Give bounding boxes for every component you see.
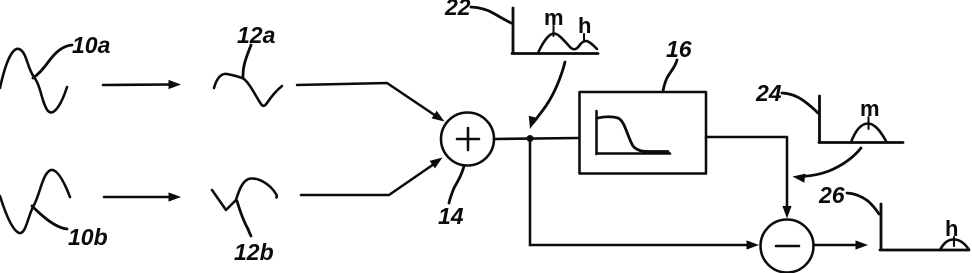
leader 26: [847, 193, 879, 214]
svg-text:26: 26: [818, 182, 845, 208]
filter block 16: [580, 92, 707, 174]
wire 12a to summer: [297, 83, 436, 116]
spectrum sketch 22 axes: [512, 8, 598, 54]
spectrum 22 humps: [538, 34, 597, 54]
wire bottom to subtractor: [530, 244, 748, 247]
spectrum 24 hump: [851, 124, 886, 143]
curved arrow 22 to junction: [533, 62, 565, 123]
wire junction down: [529, 141, 532, 245]
junction node: [527, 135, 534, 142]
wire 12b to summer: [301, 164, 434, 195]
leader 12a: [243, 45, 251, 77]
spectrum sketch 26 axes: [880, 204, 969, 250]
tick h 26: [953, 237, 955, 246]
waveform 12a: [214, 74, 282, 106]
spectrum sketch 24 axes: [819, 96, 903, 143]
subtractor circle: [761, 220, 814, 273]
curved arrow 24 to wire: [802, 148, 861, 177]
leader 14: [449, 166, 464, 203]
filter response axes: [597, 111, 671, 154]
leader 10a: [33, 45, 72, 78]
svg-text:14: 14: [438, 203, 464, 229]
spectrum 26 hump: [940, 240, 969, 251]
svg-text:22: 22: [444, 0, 471, 20]
leader 12b: [237, 201, 251, 236]
arrow 10b to 12b: [104, 196, 170, 199]
waveform 10b: [0, 170, 70, 233]
leader 22: [471, 7, 511, 23]
svg-text:h: h: [945, 216, 958, 241]
output arrow of subtractor: [814, 244, 858, 247]
subtractor minus sign: [776, 245, 799, 248]
svg-text:12a: 12a: [237, 22, 276, 48]
tick m 24: [868, 117, 870, 129]
svg-text:10b: 10b: [68, 224, 108, 250]
svg-text:12b: 12b: [234, 239, 274, 265]
leader 24: [782, 93, 818, 113]
summer U14 circle: [441, 113, 494, 166]
svg-text:m: m: [860, 96, 880, 121]
waveform 12b: [212, 178, 277, 210]
tick h 22: [583, 34, 585, 41]
leader 16: [663, 60, 677, 92]
svg-text:16: 16: [666, 36, 692, 62]
svg-text:24: 24: [755, 80, 782, 106]
tick m 22: [553, 26, 555, 36]
arrow 10a to 12a: [103, 83, 170, 86]
filter response curve: [598, 117, 669, 152]
wire filter to subtractor: [706, 137, 787, 211]
summer plus sign: [457, 128, 479, 150]
leader 10b: [32, 206, 67, 229]
svg-text:10a: 10a: [72, 32, 111, 58]
waveform 10a: [0, 49, 67, 113]
wire summer to junction to filter: [494, 138, 579, 139]
